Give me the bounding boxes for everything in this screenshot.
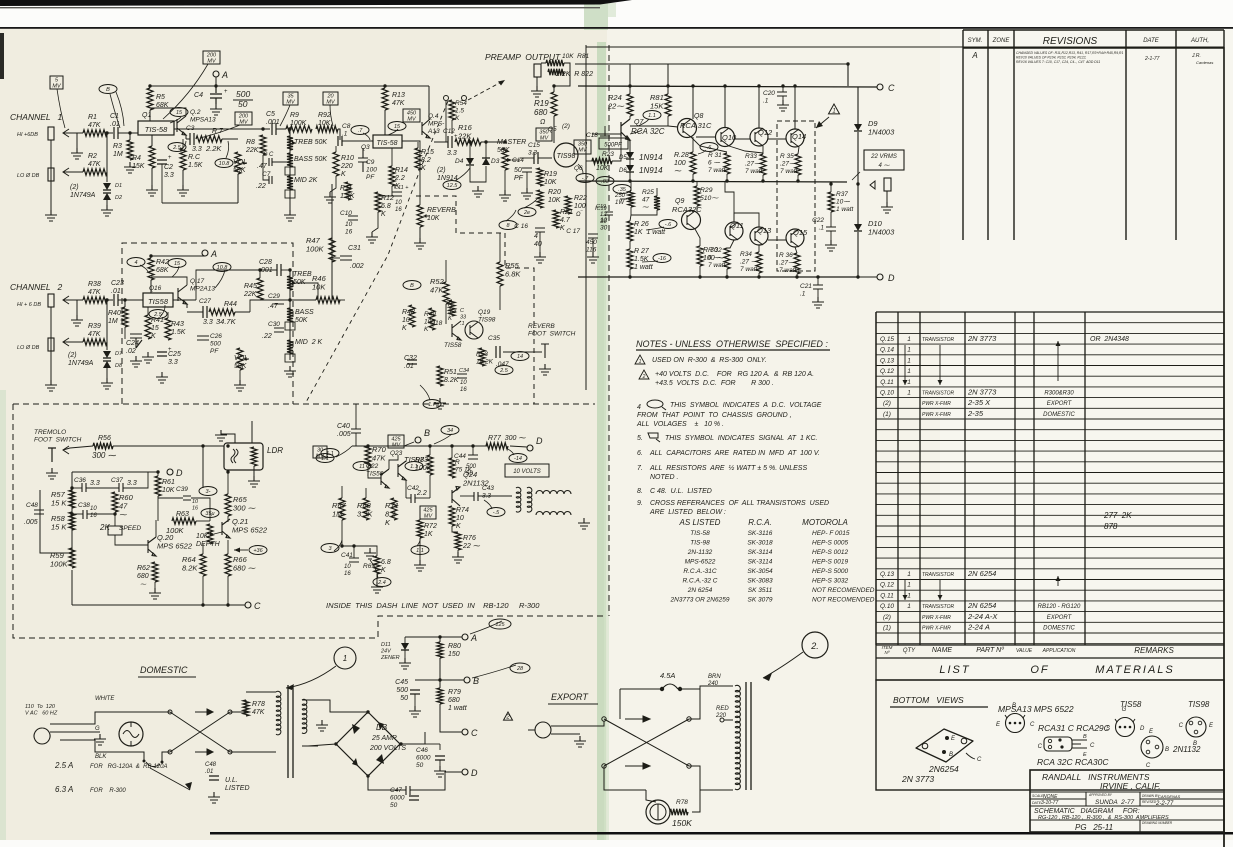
resistor R62 xyxy=(152,562,158,582)
svg-text:A: A xyxy=(470,633,477,643)
fuse ratings b xyxy=(90,764,167,770)
resistor R78 xyxy=(243,700,265,716)
wire r76 gnd xyxy=(457,550,459,552)
R14 label xyxy=(394,167,408,190)
title scale row xyxy=(1032,793,1181,800)
Q15 designator xyxy=(793,228,808,237)
node ref 34 xyxy=(441,426,459,435)
svg-text:Q.17: Q.17 xyxy=(190,278,204,285)
resistor R11 xyxy=(345,182,351,200)
wire r4 gnd xyxy=(151,168,153,185)
svg-text:WHITE: WHITE xyxy=(95,696,115,702)
wire q10 q12 base xyxy=(734,138,750,140)
svg-text:REV16 VALUES 7: C10, C17, C24,: REV16 VALUES 7: C10, C17, C24, C4-., C47… xyxy=(1016,60,1100,64)
wire r25 up xyxy=(656,188,658,196)
node terminal A ps xyxy=(462,633,477,643)
svg-text:10K: 10K xyxy=(596,165,609,172)
svg-text:50: 50 xyxy=(514,167,522,174)
wire c41 r69 top xyxy=(342,546,377,556)
svg-text:.01: .01 xyxy=(205,769,213,775)
svg-text:100: 100 xyxy=(674,160,686,167)
resistor R59 xyxy=(69,548,75,568)
svg-text:R 26: R 26 xyxy=(634,221,649,228)
materials ditto arrows xyxy=(903,341,1061,385)
capacitor C11 xyxy=(392,185,409,213)
wire c5 r9 xyxy=(276,128,286,130)
svg-text:6.3 A: 6.3 A xyxy=(55,785,73,794)
wire main rail xyxy=(578,86,877,87)
wire to c8 xyxy=(338,129,340,140)
ground gnd tone ch1 xyxy=(284,210,296,221)
r78 export value xyxy=(672,818,692,828)
Q6 designator xyxy=(574,165,583,172)
resistor R77 xyxy=(486,443,508,449)
svg-text:878: 878 xyxy=(1104,522,1118,531)
svg-text:2-35 X: 2-35 X xyxy=(967,398,991,407)
svg-text:R 32: R 32 xyxy=(708,247,722,254)
wire r40 down xyxy=(124,327,126,339)
svg-text:HI +6DB: HI +6DB xyxy=(17,132,38,138)
materials footer rule xyxy=(876,312,1224,658)
svg-text:R33: R33 xyxy=(745,153,757,160)
svg-text:R62: R62 xyxy=(137,565,150,572)
svg-text:R34: R34 xyxy=(740,251,752,258)
svg-text:R78: R78 xyxy=(676,799,688,806)
svg-text:680: 680 xyxy=(534,108,548,117)
capacitor C1 xyxy=(110,113,120,139)
pilot lamp xyxy=(119,722,143,746)
svg-text:.01: .01 xyxy=(111,288,121,295)
transistor Q9 xyxy=(682,211,701,230)
R44 designator xyxy=(224,301,237,308)
svg-text:116: 116 xyxy=(586,247,597,254)
svg-text:2: 2 xyxy=(505,715,510,721)
R34 label xyxy=(740,251,759,273)
svg-text:MV: MV xyxy=(540,136,550,142)
svg-text:FOR R-300: FOR R-300 xyxy=(90,788,126,794)
svg-text:K: K xyxy=(381,211,386,218)
svg-text:100K: 100K xyxy=(166,526,185,535)
svg-text:B: B xyxy=(1012,703,1016,709)
svg-text:6000: 6000 xyxy=(416,755,431,762)
leader 35mv xyxy=(280,105,290,126)
R56 designator xyxy=(98,435,111,442)
R62 label xyxy=(137,565,150,580)
potentiometer master xyxy=(502,148,520,170)
svg-text:MV: MV xyxy=(326,100,336,106)
svg-text:(2): (2) xyxy=(437,167,446,174)
svg-text:MV: MV xyxy=(578,148,588,154)
wire vol down xyxy=(237,174,239,203)
resistor R23 xyxy=(592,158,612,164)
ground gnd preamp out xyxy=(531,86,543,97)
svg-text:500: 500 xyxy=(466,464,477,470)
svg-text:K: K xyxy=(151,333,156,340)
svg-text:FROM THAT POINT TO CHASSIS: FROM THAT POINT TO CHASSIS GROUND , xyxy=(637,412,792,419)
wire r79 stub xyxy=(439,680,441,688)
svg-text:MPSA13: MPSA13 xyxy=(190,117,216,124)
svg-text:25 AMP: 25 AMP xyxy=(371,735,397,742)
R28 label xyxy=(674,152,689,175)
svg-text:4 ⁓: 4 ⁓ xyxy=(878,163,890,169)
Q19 designator xyxy=(478,309,496,324)
jack channel1 lo xyxy=(48,168,54,181)
resistor R2 xyxy=(83,169,107,175)
wire q17 emitter xyxy=(186,304,188,308)
svg-text:14: 14 xyxy=(517,354,523,360)
svg-text:7 watt: 7 watt xyxy=(740,266,759,273)
svg-text:7 watt: 7 watt xyxy=(708,262,727,269)
svg-text:R.C.A.-31C: R.C.A.-31C xyxy=(683,568,717,575)
wire r5 q1 xyxy=(149,110,151,121)
svg-text:10: 10 xyxy=(90,506,97,512)
svg-text:1N4003: 1N4003 xyxy=(868,228,895,237)
wire sheet frame top xyxy=(586,46,1224,48)
svg-text:SK-3114: SK-3114 xyxy=(748,559,773,566)
materials lower row (1) xyxy=(883,623,1075,632)
wire tone col ch2 xyxy=(289,270,291,360)
svg-text:ALL CAPACITORS ARE RATED IN: ALL CAPACITORS ARE RATED IN MFD AT 100 V… xyxy=(649,450,820,457)
svg-text:PWR X-FMR: PWR X-FMR xyxy=(922,412,951,418)
dashed box Q14 Q15 xyxy=(777,121,815,271)
svg-text:FOOT SWITCH: FOOT SWITCH xyxy=(528,331,576,338)
svg-text:C: C xyxy=(888,83,895,93)
power plug xyxy=(34,724,60,744)
D4 designator xyxy=(455,158,464,165)
wire diode stub ch2 xyxy=(106,342,108,350)
channel2 hi label xyxy=(17,302,41,308)
node node D trem xyxy=(167,468,183,478)
svg-text:10: 10 xyxy=(344,564,351,570)
svg-text:10⁓: 10⁓ xyxy=(836,199,850,206)
svg-text:DRAWING NUMBER: DRAWING NUMBER xyxy=(1142,821,1173,825)
capacitor C24 xyxy=(126,334,142,355)
capacitor C42 xyxy=(407,485,427,503)
ground gnd reverb pot xyxy=(414,238,426,249)
R69 value xyxy=(381,559,391,574)
wire r40 stub xyxy=(124,300,126,307)
wire ch2 hi in xyxy=(63,299,83,301)
wire q13 r34 xyxy=(758,245,760,252)
svg-text:TREMOLO: TREMOLO xyxy=(34,429,66,436)
svg-text:OR 2N4348: OR 2N4348 xyxy=(1090,336,1129,343)
wire c20 stub xyxy=(782,86,784,92)
wire c18 stub xyxy=(604,126,606,134)
svg-text:1: 1 xyxy=(907,571,911,578)
svg-text:6000: 6000 xyxy=(390,795,405,802)
resistor R24 xyxy=(627,94,633,116)
svg-text:Q14: Q14 xyxy=(792,132,806,141)
wire d9 bot xyxy=(857,132,859,182)
node meas 11b xyxy=(405,462,423,471)
wire fuse drop xyxy=(619,689,621,719)
wire c21 stub xyxy=(817,277,819,285)
capacitor C18 xyxy=(586,130,628,149)
capacitor C17 xyxy=(566,228,598,254)
resistor R78 export xyxy=(670,809,688,815)
switch contact 1 xyxy=(444,96,449,101)
svg-text:Q.11: Q.11 xyxy=(880,592,894,599)
svg-text:2N 6254: 2N 6254 xyxy=(967,601,996,610)
resistor R50 xyxy=(449,300,455,316)
wire q1 r4 xyxy=(151,135,153,146)
svg-text:500: 500 xyxy=(210,341,221,348)
svg-text:C31: C31 xyxy=(348,245,361,252)
revision row A xyxy=(971,51,977,60)
svg-text:BRN: BRN xyxy=(708,674,721,680)
D6 designator xyxy=(619,168,627,174)
capacitor C46 xyxy=(435,756,445,760)
svg-text:100K: 100K xyxy=(290,120,307,127)
Q12 designator xyxy=(758,128,773,137)
ground gnd speaker xyxy=(881,202,893,213)
svg-text:SK 3079: SK 3079 xyxy=(748,597,773,604)
dashed boundary reverb xyxy=(416,196,534,404)
transistor Q19 xyxy=(465,321,483,339)
capacitor C5 xyxy=(266,111,280,135)
wire d10 top xyxy=(857,182,859,224)
capacitor C41 xyxy=(341,552,359,577)
wire ch1 hi in xyxy=(63,132,83,134)
svg-text:TIS98: TIS98 xyxy=(478,317,496,324)
dashed boundary left xyxy=(13,404,606,638)
svg-text:R23: R23 xyxy=(602,151,614,158)
svg-text:3-: 3- xyxy=(206,489,211,495)
svg-text:2N1132: 2N1132 xyxy=(1172,745,1201,754)
wire master c15 xyxy=(520,157,534,159)
svg-text:D1: D1 xyxy=(115,183,122,189)
wire q8 q10 base xyxy=(696,136,715,138)
svg-text:10K: 10K xyxy=(196,533,209,540)
title company xyxy=(1042,772,1150,782)
svg-text:277 2K: 277 2K xyxy=(1103,511,1132,520)
resistor R79 xyxy=(437,688,468,712)
svg-text:C: C xyxy=(1179,723,1184,729)
svg-text:2.5 A: 2.5 A xyxy=(54,761,73,770)
svg-text:680 ⁓: 680 ⁓ xyxy=(233,564,256,573)
bottom views box xyxy=(876,680,1224,790)
wire c18 q7 base xyxy=(592,133,621,135)
wire vol2 gnd xyxy=(239,370,241,380)
svg-text:2.5: 2.5 xyxy=(499,368,509,374)
svg-text:PWR X-FMR: PWR X-FMR xyxy=(922,401,951,407)
svg-text:1: 1 xyxy=(907,603,911,610)
svg-text:2-1-77: 2-1-77 xyxy=(1144,56,1160,62)
potentiometer 250 xyxy=(620,191,634,207)
white label xyxy=(95,696,115,702)
wire c40 up xyxy=(355,404,357,429)
wire c46 tee xyxy=(425,743,440,745)
svg-text:K: K xyxy=(560,225,565,232)
title schematic xyxy=(1034,808,1140,815)
R60 label xyxy=(119,493,134,519)
svg-text:18.2K: 18.2K xyxy=(476,359,494,366)
resistor R57 xyxy=(69,490,75,508)
svg-text:R61: R61 xyxy=(162,479,175,486)
svg-text:MPS-6522: MPS-6522 xyxy=(685,559,716,566)
wire rc gnd xyxy=(182,170,184,185)
svg-text:MPS 6522: MPS 6522 xyxy=(157,542,193,551)
wire c23 q16 xyxy=(118,299,143,301)
wire q2 emitter xyxy=(185,135,187,139)
Q14 designator xyxy=(792,132,806,141)
svg-text:1: 1 xyxy=(907,347,911,354)
svg-text:K: K xyxy=(455,115,460,122)
svg-text:C15: C15 xyxy=(528,142,540,149)
diode D10 xyxy=(854,224,862,231)
svg-text:8.2K: 8.2K xyxy=(444,377,459,384)
wire r33 rail xyxy=(762,175,764,181)
capacitor C21 xyxy=(800,283,823,298)
svg-text:16: 16 xyxy=(395,207,402,213)
note 7 xyxy=(637,464,807,481)
svg-text:MPS-: MPS- xyxy=(428,121,445,128)
R53 label xyxy=(476,351,494,366)
resistor R66 xyxy=(225,554,231,576)
resistor R74 xyxy=(449,506,455,526)
svg-text:R19: R19 xyxy=(544,171,557,178)
svg-text:R 31: R 31 xyxy=(708,152,722,159)
wire master gnd wire xyxy=(504,170,506,190)
resistor R92 xyxy=(316,126,338,132)
svg-text:220: 220 xyxy=(340,163,353,170)
wire r39 up xyxy=(106,300,108,342)
revision auth2 xyxy=(1196,60,1213,65)
reverb coil h1 xyxy=(536,491,571,494)
wire mix ch2 xyxy=(250,300,316,312)
R64 label xyxy=(182,555,198,573)
potentiometer vol pot ch2 xyxy=(237,348,249,370)
potentiometer bass ch1 xyxy=(285,153,295,175)
resistor R34 xyxy=(756,252,762,273)
node meas .6 q8 xyxy=(700,143,718,152)
svg-text:K: K xyxy=(456,523,461,530)
svg-text:10K: 10K xyxy=(318,120,331,127)
resistor R27 xyxy=(627,249,633,269)
wire r54 down xyxy=(451,120,453,134)
svg-text:R77 300 ⁓: R77 300 ⁓ xyxy=(488,435,526,442)
svg-text:CHANNEL 2: CHANNEL 2 xyxy=(10,282,63,292)
svg-text:D2: D2 xyxy=(115,195,122,201)
svg-text:V AC 60 HZ: V AC 60 HZ xyxy=(25,711,58,717)
materials lower row (2) xyxy=(883,612,1073,621)
wire d11 stub xyxy=(404,637,406,643)
ground gnd c22 xyxy=(825,240,837,251)
svg-text:110 To 120: 110 To 120 xyxy=(25,704,56,710)
svg-text:Q.12: Q.12 xyxy=(880,582,894,589)
capacitor C47 xyxy=(409,796,419,800)
speed label xyxy=(119,525,141,532)
Q10 designator xyxy=(722,133,737,142)
wire b stub xyxy=(404,442,414,446)
svg-text:1M: 1M xyxy=(113,151,123,158)
svg-text:TIS-58: TIS-58 xyxy=(690,530,710,537)
R51 label xyxy=(444,369,459,384)
wire c44 stub xyxy=(472,446,474,455)
capacitor C32 xyxy=(407,360,417,364)
transistor Q15 xyxy=(786,229,804,247)
resistor R15 xyxy=(415,148,421,170)
svg-text:TRANSISTOR: TRANSISTOR xyxy=(922,604,955,610)
svg-text:R 35: R 35 xyxy=(780,153,794,160)
svg-text:R43: R43 xyxy=(171,321,184,328)
R55 label xyxy=(505,261,521,279)
capacitor C37 xyxy=(111,477,137,492)
R8 label xyxy=(245,139,259,154)
wire preamp to r19 xyxy=(554,63,570,92)
preamp output r81 xyxy=(562,53,589,60)
svg-text:BOTTOM VIEWS: BOTTOM VIEWS xyxy=(893,695,964,705)
resistor R41 xyxy=(145,315,151,339)
Q9 type xyxy=(672,205,702,214)
wire r12 gnd xyxy=(372,212,378,232)
materials header row xyxy=(882,645,1175,655)
svg-text:C 48. U.L. LISTED: C 48. U.L. LISTED xyxy=(650,488,712,495)
R44 value xyxy=(216,317,237,326)
svg-text:D5-: D5- xyxy=(619,155,629,161)
D7 designator xyxy=(115,351,123,357)
svg-text:R300&R30: R300&R30 xyxy=(1044,391,1074,397)
vac label xyxy=(25,704,58,717)
svg-text:8.: 8. xyxy=(637,488,643,495)
transistor Q17 xyxy=(178,285,187,304)
wire r45 stub xyxy=(259,270,261,278)
R58 label xyxy=(51,514,67,532)
bottom views title xyxy=(890,695,988,707)
node meas -14 xyxy=(509,454,527,463)
resistor R37 xyxy=(828,192,834,212)
wire sheet frame right xyxy=(1223,47,1225,312)
inductor export xfmr coil xyxy=(735,685,740,789)
svg-text:50K: 50K xyxy=(295,317,308,324)
capacitor CC xyxy=(257,152,274,170)
svg-text:4: 4 xyxy=(534,233,538,240)
R48 label xyxy=(402,309,415,332)
svg-text:PF: PF xyxy=(210,348,219,355)
wire revdrv rail xyxy=(352,445,488,447)
svg-text:CARDENAS: CARDENAS xyxy=(1158,794,1181,799)
node meas 2.5 rev xyxy=(495,366,513,375)
capacitor C12 xyxy=(443,128,458,157)
wire r61 down xyxy=(157,496,159,521)
R73 label xyxy=(415,457,432,472)
wire q12 q14 base xyxy=(768,138,786,140)
resistor R3 xyxy=(127,140,133,160)
svg-text:10: 10 xyxy=(456,515,464,522)
svg-text:⁓: ⁓ xyxy=(140,582,147,588)
potentiometer vol pot ch1 xyxy=(235,152,247,174)
ground gnd c48 xyxy=(208,792,220,803)
svg-text:R74: R74 xyxy=(456,507,469,514)
svg-text:ARE LISTED BELOW :: ARE LISTED BELOW : xyxy=(649,509,726,516)
dashed boundary tremolo xyxy=(13,403,595,405)
preamp output title xyxy=(485,52,561,62)
wire jack sleeve ch1 xyxy=(50,140,52,210)
wire d9 top xyxy=(857,87,859,124)
capacitor C15 xyxy=(528,142,540,164)
svg-text:24V: 24V xyxy=(380,649,392,655)
svg-text:15: 15 xyxy=(176,110,183,116)
svg-text:BASS: BASS xyxy=(295,309,314,316)
wire r70 q22 xyxy=(368,466,381,478)
wire d11 gnd xyxy=(404,650,406,658)
input arrow trem xyxy=(63,446,69,454)
svg-text:1M: 1M xyxy=(108,318,118,325)
svg-text:B: B xyxy=(949,752,953,758)
wire r38 c23 xyxy=(107,299,113,301)
note 1 xyxy=(635,355,767,365)
capacitor C22 xyxy=(812,217,836,232)
